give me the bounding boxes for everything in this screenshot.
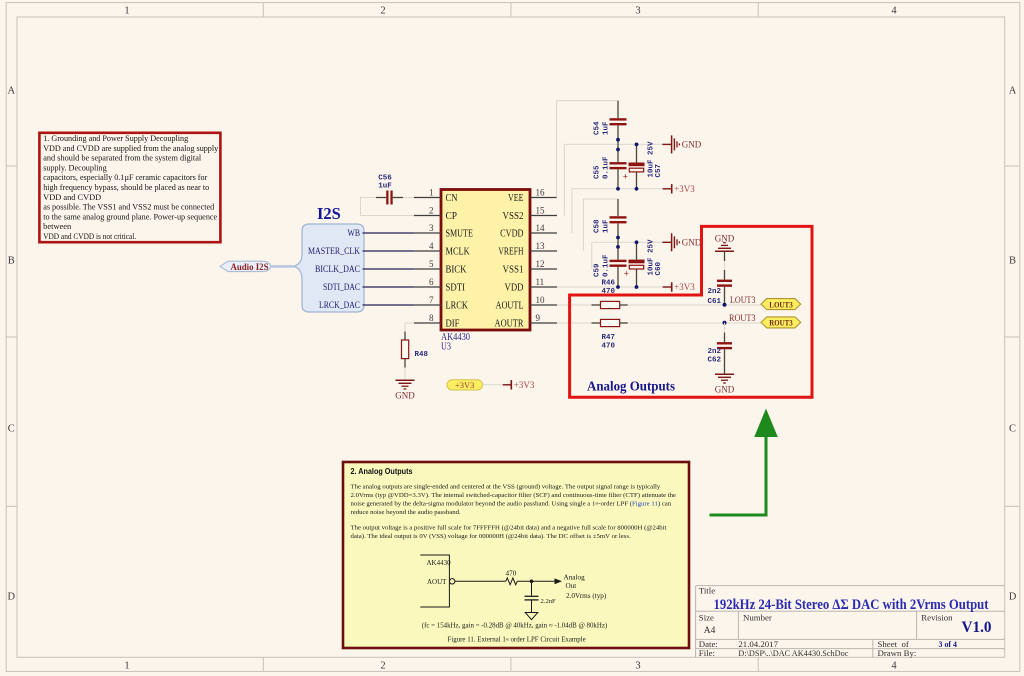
svg-text:B: B [8,256,15,267]
svg-text:12: 12 [536,259,545,269]
capacitor C58 1uF [594,216,627,233]
wire pin13 VREFH to C58 top [583,199,618,251]
svg-text:CP: CP [446,210,458,222]
wire pin15 VSS2 to GND row 1 [564,144,662,215]
wire pin14 CVDD to +3V3 row 1 [572,189,663,233]
svg-text:1uF: 1uF [603,121,611,135]
svg-text:GND: GND [682,238,702,248]
pin 1 CN [414,187,458,204]
capacitor 2.2nF (figure) [531,581,533,595]
svg-text:BICLK_DAC: BICLK_DAC [315,265,360,275]
harness signal SDTI_DAC [323,283,360,293]
power +3V3 bar symbol row 1 [663,184,696,194]
pin 12 VSS1 [503,259,558,276]
svg-text:GND: GND [395,391,415,401]
svg-text:2n2: 2n2 [707,288,721,296]
svg-text:3: 3 [635,6,640,17]
svg-text:VREFH: VREFH [498,246,523,258]
svg-text:9: 9 [536,313,541,323]
svg-text:+: + [623,172,628,182]
svg-text:2: 2 [429,205,434,215]
svg-text:A: A [8,86,16,97]
resistor R48 [402,332,429,368]
svg-text:GND: GND [715,233,735,243]
svg-text:between: between [43,222,72,231]
svg-text:Figure 11. External 1st order: Figure 11. External 1st order LPF Circui… [448,636,586,643]
svg-text:10: 10 [536,295,546,305]
pin 8 DIF [414,313,460,330]
svg-text:C55: C55 [594,165,602,179]
resistor R46 470 [592,280,628,309]
svg-text:R46: R46 [602,280,616,288]
svg-text:LRCK: LRCK [446,300,469,312]
svg-text:capacitors, especially 0.1µF c: capacitors, especially 0.1µF ceramic cap… [43,173,207,182]
svg-text:supply. Decoupling: supply. Decoupling [43,163,106,172]
svg-text:0.1uF: 0.1uF [603,156,611,179]
wire BICLK_DAC to pin 5 [363,268,415,270]
harness signal MASTER_CLK [308,247,360,257]
svg-text:data). The ideal output is 0V: data). The ideal output is 0V (VSS) volt… [351,533,632,540]
svg-text:+3V3: +3V3 [674,282,695,292]
svg-text:AOUTL: AOUTL [496,300,524,312]
svg-text:8: 8 [429,313,434,323]
pin 15 VSS2 [503,205,558,222]
svg-text:CVDD: CVDD [500,228,523,240]
wire R46 to node LOUT3 [628,304,761,306]
svg-text:3: 3 [635,661,640,672]
svg-text:4: 4 [429,241,434,251]
svg-text:1uF: 1uF [603,219,611,233]
svg-text:SDTI_DAC: SDTI_DAC [323,283,360,293]
ground earth symbol below C62 [715,374,735,394]
port Audio I2S [220,261,271,273]
svg-text:2.0Vrms (typ @VDD=3.3V). The i: 2.0Vrms (typ @VDD=3.3V). The internal sw… [351,492,677,499]
pin 11 VDD [505,277,558,294]
svg-text:470: 470 [506,570,517,578]
svg-text:AOUTR: AOUTR [495,318,525,330]
title block [696,586,1005,658]
pin 10 AOUTL [496,295,558,312]
wire R48 to GND [404,368,406,381]
pin 9 AOUTR [495,313,558,330]
capacitor C56 [376,175,403,205]
svg-text:470: 470 [602,343,616,351]
svg-text:11: 11 [536,277,545,287]
svg-text:I2S: I2S [317,204,341,223]
svg-text:File:: File: [699,648,715,658]
svg-text:C61: C61 [707,298,721,306]
ic body AK4430 (figure) [420,555,449,607]
capacitor C60 10uF 25V electrolytic [624,239,663,279]
net C58 axis lead [617,199,619,216]
svg-text:The analog outputs are single-: The analog outputs are single-ended and … [351,483,661,490]
wire pin11 VDD to +3V3 row 2 [557,286,663,288]
power GND bar symbol row 1 [662,135,701,153]
wire pin9 AOUTR to R47 [557,322,592,324]
capacitor C55 0.1uF [594,156,627,179]
signal harness I2S [295,224,365,312]
harness signal BICLK_DAC [315,265,360,275]
svg-text:CN: CN [446,192,458,204]
svg-text:C56: C56 [378,175,392,183]
port ROUT3 [761,317,801,328]
svg-text:Analog Outputs: Analog Outputs [587,379,675,394]
svg-text:ROUT3: ROUT3 [769,319,793,328]
svg-text:VSS1: VSS1 [503,264,524,276]
svg-text:2. Analog Outputs: 2. Analog Outputs [351,466,413,476]
red group box Analog Outputs [570,226,812,397]
svg-text:D: D [1009,592,1017,603]
svg-text:C54: C54 [594,121,602,135]
capacitor C57 10uF 25V electrolytic [623,141,663,182]
node LOUT3 [723,295,756,307]
svg-text:BICK: BICK [446,264,467,276]
svg-text:MCLK: MCLK [446,246,470,258]
svg-text:D:\DSP\..\DAC AK4430.SchDoc: D:\DSP\..\DAC AK4430.SchDoc [738,648,848,658]
wire C56 loop to pin 2 [361,198,415,216]
pin 16 VEE [508,187,557,204]
harness signal LRCK_DAC [319,301,360,311]
svg-text:A: A [1009,86,1017,97]
note 2: analog outputs yellow box [343,462,689,648]
svg-text:as possible. The VSS1 and VSS2: as possible. The VSS1 and VSS2 must be c… [43,203,215,212]
node dot (figure) [530,580,534,584]
net C60 axis lead [636,242,638,259]
svg-text:7: 7 [429,295,434,305]
wire pill to +3V3 symbol [483,384,503,386]
pin 2 CP [414,205,457,222]
svg-text:Number: Number [743,613,772,623]
svg-text:Audio I2S: Audio I2S [231,263,269,273]
harness stem wire [271,265,296,268]
svg-text:0.1uF: 0.1uF [603,254,611,277]
wire pin16 VEE to C54 top [557,101,618,198]
svg-text:ROUT3: ROUT3 [729,313,756,323]
svg-text:1: 1 [429,187,434,197]
svg-text:R47: R47 [602,334,616,342]
svg-text:LOUT3: LOUT3 [769,300,793,309]
pin 7 LRCK [414,295,468,312]
resistor R47 470 [592,319,628,350]
svg-text:SMUTE: SMUTE [446,228,474,240]
svg-text:LRCK_DAC: LRCK_DAC [319,301,360,311]
pin 14 CVDD [500,223,557,240]
svg-text:WB: WB [348,229,361,239]
svg-text:4: 4 [891,6,897,17]
svg-text:4: 4 [891,661,897,672]
designator U3 AK4430 [441,332,470,353]
svg-text:Drawn By:: Drawn By: [878,648,917,658]
svg-text:+: + [624,269,629,279]
svg-text:Analog: Analog [564,574,586,582]
capacitor C62 2n2 [707,333,732,375]
power GND bar symbol row 2 [662,233,701,251]
svg-text:R48: R48 [415,351,429,359]
wire pin8 DIF to R48 [405,323,414,332]
svg-text:A4: A4 [704,626,716,636]
power +3V3 bar symbol bottom [503,380,535,390]
svg-text:1: 1 [124,661,129,672]
svg-text:3 of 4: 3 of 4 [939,639,958,649]
svg-text:2: 2 [380,6,385,17]
svg-text:3: 3 [429,223,434,233]
ground earth symbol below R48 [395,380,415,400]
svg-text:high frequency bypass, should: high frequency bypass, should be placed … [43,183,209,192]
svg-text:16: 16 [536,187,546,197]
svg-text:VDD and CVDD is not critical.: VDD and CVDD is not critical. [43,232,136,241]
svg-text:AK4430: AK4430 [427,559,452,567]
svg-text:2.0Vrms (typ): 2.0Vrms (typ) [566,592,607,600]
wire C56 right to pin 1 [403,197,414,199]
svg-text:C62: C62 [707,356,721,364]
pin AOUT circle (figure) [450,579,455,584]
svg-text:GND: GND [715,385,735,395]
svg-text:reduce noise beyond the audio: reduce noise beyond the audio passband. [351,509,462,516]
wire SDTI_DAC to pin 6 [363,286,415,288]
svg-text:2: 2 [380,661,385,672]
svg-text:to the same analog ground plan: to the same analog ground plane. Power-u… [43,212,217,221]
svg-text:GND: GND [682,140,702,150]
svg-text:C59: C59 [594,263,602,277]
pin 5 BICK [414,259,467,276]
capacitor C59 0.1uF [594,254,627,277]
svg-text:1: 1 [124,6,129,17]
pin 13 VREFH [498,241,557,258]
pin 6 SDTI [414,277,465,294]
arrow head analog out (figure) [555,578,563,584]
svg-text:C58: C58 [594,219,602,233]
resistor 470 zigzag (figure) [506,578,518,585]
svg-text:Title: Title [699,586,715,596]
svg-text:B: B [1009,256,1016,267]
wire WB to pin 3 [363,232,415,234]
svg-text:VDD and CVDD: VDD and CVDD [43,193,101,202]
net C57 axis lead [636,144,638,162]
wire MASTER_CLK to pin 4 [363,250,415,252]
svg-text:+3V3: +3V3 [514,380,535,390]
wire pin10 AOUTL to R46 [557,304,592,306]
ic U3 AK4430 body [441,190,530,331]
power +3V3 bar symbol row 2 [663,282,696,292]
svg-text:13: 13 [536,241,546,251]
port LOUT3 [761,299,801,310]
svg-text:Out: Out [566,582,577,590]
harness signal WB [348,229,361,239]
svg-text:(fc = 154kHz, gain = -0.28dB @: (fc = 154kHz, gain = -0.28dB @ 40kHz, ga… [422,623,607,630]
wire ROUT3 node to C62 [724,323,726,333]
svg-text:Revision: Revision [921,613,953,623]
svg-text:C57: C57 [655,164,663,178]
svg-text:2n2: 2n2 [707,348,721,356]
svg-text:VSS2: VSS2 [503,210,524,222]
wire LRCK_DAC to pin 7 [363,304,415,306]
capacitor C61 2n2 [707,270,732,306]
wire resistor to arrow (figure) [517,580,555,582]
junction dots decoupling [616,138,638,289]
net label +3V3 pill [447,380,483,390]
svg-text:and should be separated from t: and should be separated from the system … [43,154,202,163]
svg-text:15: 15 [536,205,546,215]
svg-text:C60: C60 [655,261,663,275]
wire AOUT to resistor (figure) [455,580,506,582]
svg-text:VEE: VEE [508,192,524,204]
ground triangle (figure) [525,613,538,620]
svg-text:2.2nF: 2.2nF [541,598,557,605]
ground earth symbol above C61 [715,233,735,251]
green arrow annotation [710,409,778,516]
svg-text:SDTI: SDTI [446,282,466,294]
note 1: grounding and power supply decoupling [39,133,220,242]
svg-text:The output voltage is a positi: The output voltage is a positive full sc… [351,525,667,532]
svg-text:VDD: VDD [505,282,524,294]
svg-text:1uF: 1uF [378,183,392,191]
svg-text:V1.0: V1.0 [962,619,992,636]
svg-text:C: C [8,424,15,435]
svg-text:DIF: DIF [446,318,460,330]
wire R47 to node ROUT3 [628,322,761,324]
pin 4 MCLK [414,241,470,258]
svg-text:noise generated by the delta-s: noise generated by the delta-sigma modul… [351,500,672,507]
net C54 axis lead [617,101,619,119]
svg-text:192kHz 24-Bit Stereo ΔΣ DAC wi: 192kHz 24-Bit Stereo ΔΣ DAC with 2Vrms O… [714,597,989,613]
svg-text:+3V3: +3V3 [455,380,474,390]
svg-text:1. Grounding and Power Supply: 1. Grounding and Power Supply Decoupling [43,134,188,143]
node ROUT3 [723,313,756,325]
svg-text:AOUT: AOUT [427,578,447,586]
svg-text:VDD and CVDD are supplied from: VDD and CVDD are supplied from the analo… [43,144,219,153]
svg-text:U3: U3 [441,342,451,353]
svg-text:5: 5 [429,259,434,269]
svg-text:C: C [1009,424,1016,435]
svg-text:MASTER_CLK: MASTER_CLK [308,247,360,257]
wire pin12 VSS1 to GND row 2 [592,242,663,269]
svg-text:D: D [8,592,16,603]
svg-text:Size: Size [699,613,714,623]
wire GND to C61 [724,251,726,261]
svg-text:6: 6 [429,277,434,287]
svg-text:LOUT3: LOUT3 [730,295,756,305]
pin 3 SMUTE [414,223,473,240]
svg-text:+3V3: +3V3 [674,184,695,194]
capacitor C54 1uF [594,118,627,135]
figure 11 circuit inside note 2 [420,555,555,620]
svg-text:14: 14 [536,223,546,233]
